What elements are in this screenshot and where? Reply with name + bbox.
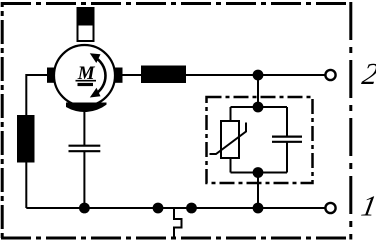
resistor (top, half-filled, above motor) (77, 7, 95, 41)
label 1 (361, 196, 374, 215)
wire: box network bottom bar (231, 172, 288, 174)
pole shoe arc at motor bottom (66, 103, 107, 113)
wire: capacitor C2 branch verticals (286, 107, 288, 173)
node: box bottom junction (253, 167, 264, 178)
node: top wire junction (253, 70, 264, 81)
suppression box boundary (dash-dot) (207, 97, 313, 183)
resistor (series, in wire to terminal 2, solid) (141, 66, 186, 84)
wire: capacitor C1 bottom plate to bottom rail (83, 151, 85, 208)
wire: top node down into suppression box (257, 75, 259, 107)
node: bottom rail right of chassis tap (186, 203, 197, 214)
wire: left rail from motor left brush down to bottom rail (26, 75, 52, 208)
capacitor C1 (below motor) (69, 146, 101, 152)
capacitor C2 (inside box) (272, 137, 302, 142)
wire: box network top bar (231, 106, 288, 108)
wire: suppression box bottom node down to bottom rail (257, 173, 259, 209)
terminal 1 (open circle) (325, 203, 335, 213)
terminal 2 (open circle) (325, 70, 335, 80)
letter M with underlines (78, 67, 96, 79)
wire: motor right brush to terminal 2 (119, 74, 326, 76)
chassis connection (stepped wire to housing) (174, 208, 182, 239)
wire: bottom rail (26, 207, 325, 209)
varistor (rectangle with diagonal) (210, 121, 247, 158)
motor right brush (115, 68, 123, 83)
node: bottom rail at capacitor C1 (79, 203, 90, 214)
node: box top junction (253, 102, 264, 113)
wire: varistor branch verticals (230, 107, 232, 173)
motor left brush (47, 68, 55, 83)
rotation arrow (double headed arc) (94, 57, 106, 95)
motor M (circle with brushes, rotation arrow and pole shoe) (47, 45, 123, 112)
node: bottom rail left of chassis tap (153, 203, 164, 214)
wire: motor bottom to capacitor C1 top plate (83, 105, 85, 146)
label 2 (361, 64, 376, 84)
node: bottom rail at box branch (253, 203, 264, 214)
resistor (left rail, solid) (17, 115, 35, 163)
